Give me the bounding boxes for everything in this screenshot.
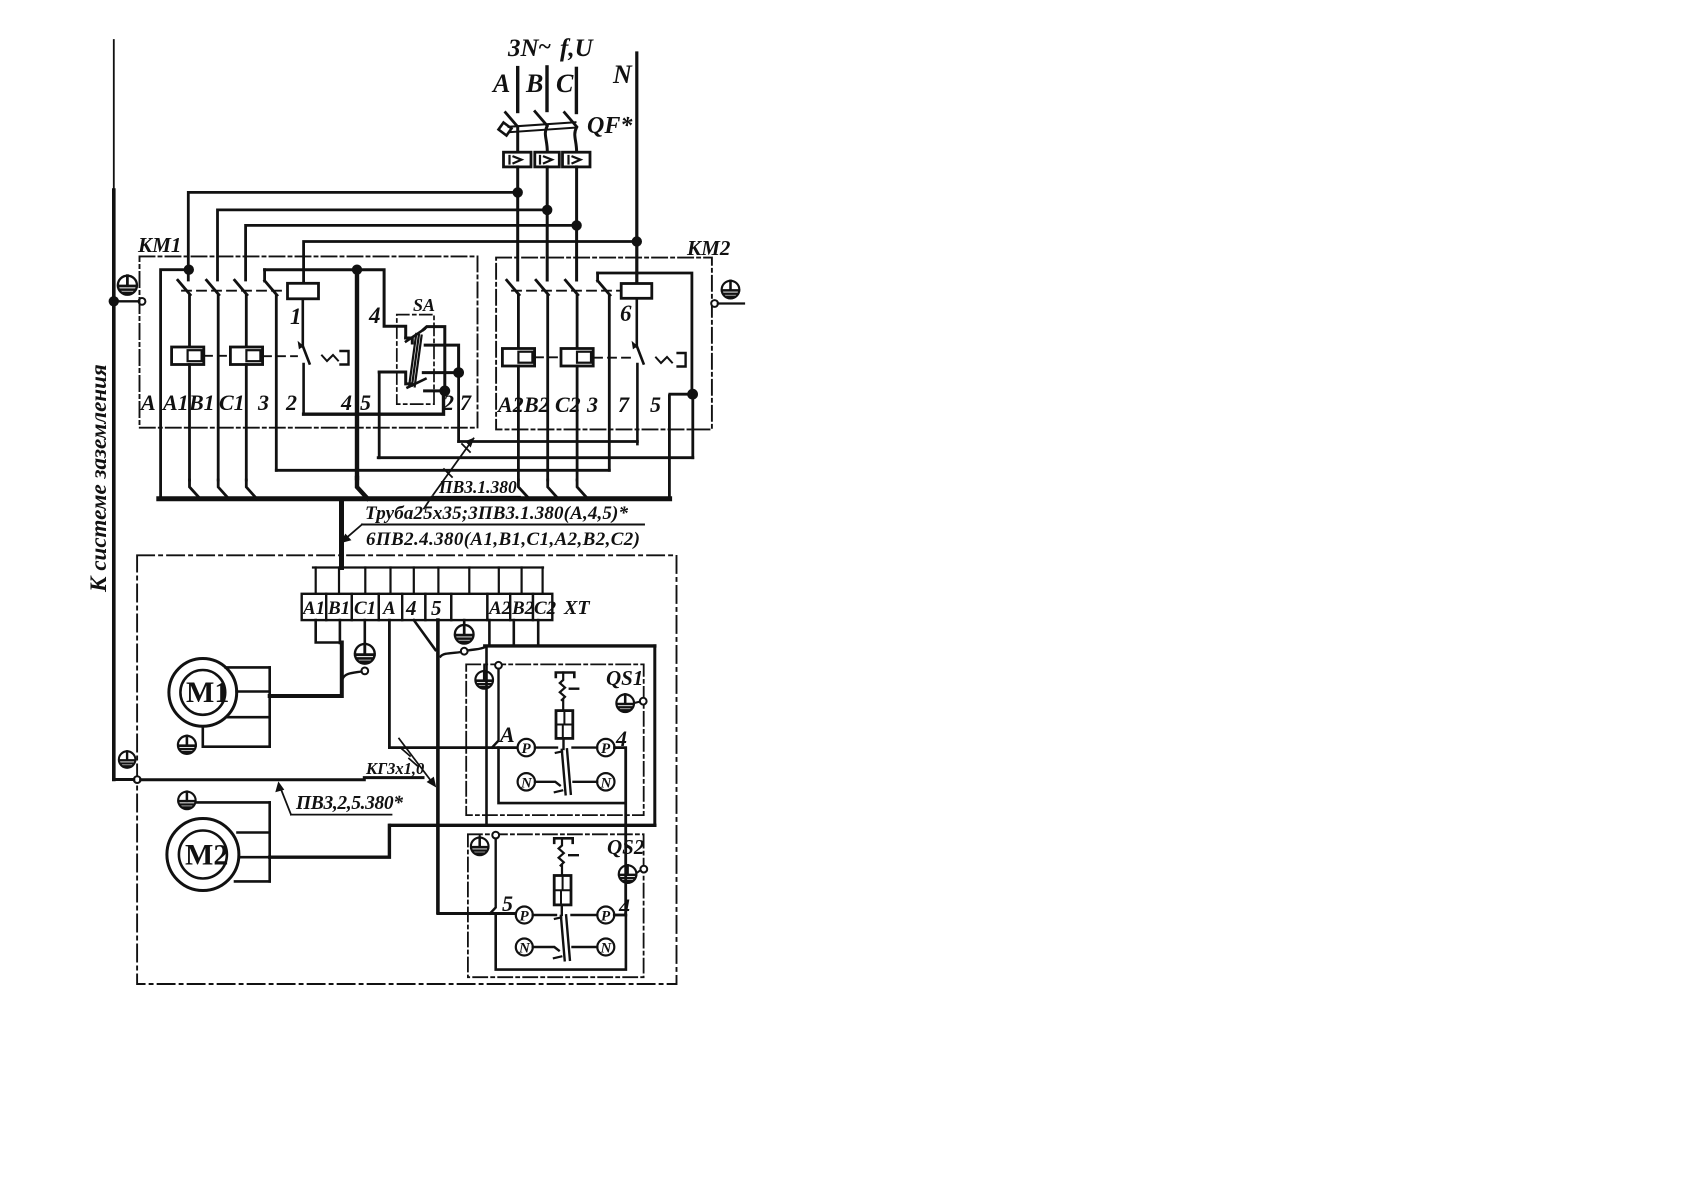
wire heater A2 to terminal [517,366,520,480]
wire pole A to release [516,128,519,153]
svg-text:QS2: QS2 [607,835,645,859]
thermal relay heater KK1-A [172,347,204,365]
svg-text:Труба25х35;3ПВ3.1.380(А,4,5)*: Труба25х35;3ПВ3.1.380(А,4,5)* [365,503,629,524]
wire blade to N right QS1 [574,781,598,783]
M2 earth wire [196,801,270,804]
riser bend to enclosure circle [114,778,134,781]
KM2 main contact pole C2 [565,280,577,348]
svg-text:С2: С2 [555,392,581,417]
fuse holder QS1 line stub [556,673,575,678]
cable note fraction bar [362,524,644,526]
earth symbol PE at XT [455,625,474,644]
KM1 terminal labels [139,390,472,415]
wire A entry to contact [492,669,499,748]
wire earth circle to M1 cable [343,672,362,680]
fuse holder QS2 line stub [554,838,573,843]
svg-text:А2: А2 [488,598,512,619]
thermal relay heater KK1-C [230,347,262,365]
svg-text:3: 3 [586,392,598,417]
wire phase A release to KM2 pole A2 [516,167,519,280]
M2 feeder cable bottom run [390,824,655,827]
wire pole C to release [575,128,577,153]
wire XT B2 down [512,620,515,646]
M1 phase stub middle [237,690,270,693]
cable callout PV3.1.380 leader [424,439,474,509]
terminal circle QS2 right [640,866,647,873]
switch SA blade bottom contact [408,379,426,388]
junction phase B [542,205,552,215]
trunk cable XT to QS area [436,620,440,912]
switch SA enclosure box [397,315,434,405]
junction net 4 [352,265,362,275]
chamfer net4 to bus [357,478,368,499]
M1 terminal bundle [268,667,271,746]
svg-text:f,U: f,U [560,35,595,62]
svg-text:М2: М2 [185,839,228,872]
svg-text:ПВ3,2,5.380*: ПВ3,2,5.380* [295,793,403,814]
earth symbol QS1 right [616,694,634,712]
svg-text:4: 4 [405,596,417,620]
svg-text:А: А [382,598,396,619]
KM1 main contact pole B1 [207,280,219,480]
wire node 7 to terminal row [457,373,460,442]
svg-text:6ПВ2.4.380(А1,В1,С1,А2,В2,С2): 6ПВ2.4.380(А1,В1,С1,А2,В2,С2) [366,529,640,550]
wire XT PE down [463,620,466,624]
breaker QF* pole A contact [506,113,518,127]
wire pole B to release [545,127,547,153]
svg-text:N: N [520,775,533,791]
svg-text:ХТ: ХТ [563,597,590,619]
svg-text:1: 1 [290,304,302,329]
svg-text:В2: В2 [511,598,535,619]
svg-text:B: B [525,69,543,98]
KM2 main contact pole B2 [536,280,548,480]
wire fuse to blade QS2 [561,905,563,915]
svg-text:N: N [518,940,531,956]
KM1 contact linkage dashes [182,290,287,292]
switch QS1 casing left edge [485,646,488,825]
contact P right QS1 [597,739,614,756]
svg-text:А1: А1 [302,598,325,619]
junction phase A [513,187,523,197]
wire XT C2 down [537,620,540,646]
contact N right QS2 [597,939,614,956]
wire link net 7 [459,440,638,443]
cable note leader arrow [344,525,362,541]
junction node 5 KM2 [687,389,698,400]
svg-text:С2: С2 [534,598,557,619]
coil KM1 (1) [288,283,319,299]
thermal NC contact spring and stop [322,355,338,361]
overcurrent release I> phase B [535,152,560,167]
contactor KM2 enclosure box [496,258,712,430]
terminal circle QS1 right [640,698,647,705]
svg-text:КМ2: КМ2 [686,236,731,260]
phase C incoming line [575,68,578,112]
svg-text:К системе заземления: К системе заземления [86,364,111,593]
thermal relay heater KK2-C [561,349,593,367]
thermal NC contact KM1 [303,346,310,414]
svg-text:5: 5 [360,390,371,415]
wire XT A1 to M1 cable [316,620,342,642]
wire link net 5 [378,456,693,459]
svg-text:N: N [612,60,633,89]
svg-text:М1: М1 [186,676,229,709]
phase A incoming line [516,68,519,112]
wire riser to KM1 enclosure [114,300,139,302]
svg-text:7: 7 [618,392,630,417]
knife blade QS1 [562,749,571,794]
switch SA top hook wire to node 2 [424,327,445,391]
breaker QF* linkage bar [509,122,577,132]
overcurrent release I> phase C [563,152,591,167]
svg-text:2: 2 [285,390,297,415]
XT stubs above [316,568,543,594]
M1 phase stub bottom [228,716,270,719]
terminal circle A entry QS1 [495,662,502,669]
earth symbol M2 frame [178,792,195,809]
svg-text:5: 5 [431,596,442,620]
overcurrent release I> phase A [504,152,532,167]
junction net A at pole A1 [184,265,194,275]
fuse QS1 [556,711,573,739]
contact N left QS1 [518,773,535,790]
svg-text:6: 6 [620,301,632,326]
wire link net 3 [276,469,609,472]
thermal relay heater KK2-A [502,349,534,367]
junction on riser [109,296,119,306]
M2 feeder cable top run [485,644,655,647]
svg-text:Р: Р [520,908,530,924]
svg-text:В1: В1 [327,598,350,619]
wire phase C branch to KM1 pole C1 [246,225,577,280]
svg-text:4: 4 [615,726,627,751]
wire net A to P contact QS1 [389,746,517,749]
supply label 3N~ f,U [491,34,633,139]
switch SA lower contact wire node 2 [425,389,445,392]
wire P left to blade QS1 [535,746,557,748]
KM2 terminal labels [496,392,661,417]
chamfer B2 to bus [548,480,558,499]
svg-text:Р: Р [522,741,532,757]
chamfer A1 to bus [190,480,201,499]
earth symbol at KM1 [118,276,137,295]
svg-text:А2: А2 [496,392,524,417]
wire terminal 4 riser [355,270,359,478]
M2 phase stub middle [239,856,270,859]
motor M1 [169,659,237,727]
KM2 heater linkage dashes [535,356,631,358]
M2 phase stub bottom [235,880,270,883]
wire KM2 enclosure to earth [718,302,744,304]
svg-text:QF*: QF* [587,113,633,139]
wire node 5 down [691,394,694,458]
svg-text:ПВ3.1.380: ПВ3.1.380 [438,477,517,497]
svg-text:QS1: QS1 [606,666,643,690]
switch SA lower contact wire node 7 [423,371,458,374]
wire XT 4 to trunk [414,620,436,650]
junction neutral [632,236,642,246]
wire blade to N right QS2 [573,946,598,948]
contact N left QS2 [516,939,533,956]
KM1 aux contact pole 4 [265,270,277,471]
terminal circle machine enclosure [134,776,141,783]
wire KM2 aux to node 5 [598,273,692,394]
M2 feeder cable right run [653,646,656,825]
wire phase B branch to KM1 pole B1 [218,210,548,280]
contactor KM1 enclosure box [140,256,478,427]
wire phase A branch to KM1 pole A1 [188,192,517,280]
motor M2 [167,819,239,891]
breaker QF* pole C contact [565,113,577,127]
earth symbol QS2 right [619,865,637,883]
M2 circuit wires PV3 [141,778,423,780]
M1 feeder cable [270,643,342,697]
contact P left QS2 [516,907,533,924]
M2 phase stub top [238,831,270,834]
neutral N line [635,53,638,284]
wire net 4 QS1 to QS2 [615,748,626,915]
wire net 4 from aux pole to SA [265,270,406,338]
wire net 5 to P contact QS2 [438,912,516,915]
svg-text:А: А [498,722,515,747]
contact P right QS2 [597,907,614,924]
svg-text:С1: С1 [354,598,376,619]
wire blade to P right QS1 [573,746,598,748]
svg-text:SA: SA [413,295,435,315]
svg-text:КМ1: КМ1 [137,233,181,257]
KM2 contact linkage dashes [512,290,621,292]
switch base QS2 [496,914,626,969]
wire 5 entry to contact [490,839,496,914]
wire phase C release to KM2 pole C2 [575,167,578,280]
junction node 7 at SA [453,367,464,378]
cable bus below contactors [159,496,670,501]
switch SA blade top contact [406,329,424,341]
wire P right QS2 to net 4 [614,914,625,917]
KM1 main contact pole A1 [178,280,190,347]
svg-text:4: 4 [340,390,352,415]
svg-text:7: 7 [460,390,472,415]
wire fuse to blade QS1 [562,738,564,749]
wire PE circle to QS1 casing [468,647,487,651]
chamfer A2 to bus [518,480,529,499]
switch QS1 compartment box [466,664,644,815]
breaker QF* pole B contact [535,112,547,126]
breaker QF* latch parallelogram [499,123,512,136]
thermal NC contact KM2 [637,346,644,444]
M2 terminal bundle [268,802,271,881]
M2 feeder cable jog [270,825,390,857]
KM2 aux contact pole [598,273,610,470]
heater linkage dashes [204,355,297,357]
earth symbol QS1 left [475,671,493,689]
chamfer B1 to bus [218,480,228,499]
grounding system riser [113,40,115,190]
knife blade QS2 [561,915,570,960]
thermal NC contact KM2 spring and stop [656,357,672,363]
machine enclosure box [137,555,676,984]
trunk cable to terminal block [339,501,344,568]
wire coil1 to thermal contact [301,299,304,347]
svg-text:3N: 3N [507,35,540,62]
terminal circle KM2 enclosure [711,300,718,307]
svg-text:А: А [139,390,156,415]
wire XT A down [388,620,391,748]
wire XT A2 down [488,620,491,646]
svg-text:С1: С1 [219,390,245,415]
svg-text:N: N [600,775,613,791]
M1 phase stub top [226,666,270,669]
wire terminal A from net A [161,270,189,499]
wire phase B release to KM2 pole B2 [546,167,549,280]
M1 earth stub [203,726,270,746]
wire PE circle to trunk [441,652,461,657]
wire coil6 to thermal contact [635,298,638,346]
XT cell labels [302,596,557,620]
terminal circle M1 circuit [361,668,368,675]
terminal circle KM1 enclosure [139,298,146,305]
coil KM2 (6) [621,284,652,299]
svg-text:N: N [600,940,613,956]
terminal circle PE at XT [461,648,468,655]
junction phase C [571,220,581,230]
terminal block XT cells [302,594,553,620]
switch QS2 compartment box [468,834,644,977]
svg-text:4: 4 [618,894,630,919]
chamfer C2 to bus [577,480,587,499]
switch base QS1 [499,748,626,804]
svg-text:A: A [491,69,510,98]
fuse QS2 [554,876,571,905]
switch SA blade [409,334,421,386]
svg-text:5: 5 [502,891,513,916]
earth symbol machine enclosure [119,751,136,768]
junction node 2 at SA [439,386,450,397]
earth symbol M1 circuit [355,644,375,664]
wire XT B1 down [339,620,342,643]
phase B incoming line [545,67,548,111]
svg-text:5: 5 [650,392,661,417]
wire heater C2 to terminal [576,366,579,480]
wire neutral branch to coil KM1 [304,242,637,284]
earth symbol QS2 left [471,838,489,856]
chamfer C1 to bus [246,480,256,499]
KM1 main contact pole C1 [235,280,247,347]
wire terminal 5 KM1 [378,372,381,458]
svg-text:В2: В2 [523,392,550,417]
wire XT C1 to earth terminal [363,620,366,643]
svg-text:4: 4 [368,303,381,328]
earth symbol at KM2 [722,281,740,299]
wire P left to blade QS2 [533,914,556,916]
contact P left QS1 [518,739,535,756]
wire node 5 branch to terminal [668,394,692,498]
cable label KG3x1.0 leader [399,739,433,784]
switch SA upper jaw [406,338,413,343]
contact N right QS1 [597,773,614,790]
earth symbol M1 frame [178,736,196,754]
wire net 2 link [304,391,444,414]
svg-text:В1: В1 [188,390,215,415]
KM2 main contact pole A2 [507,280,519,348]
switch SA wire to node 7 [425,345,458,373]
terminal block XT rail [313,566,543,568]
wire N left to blade QS2 [533,947,559,951]
svg-text:~: ~ [538,34,551,59]
wire blade to P right QS2 [572,914,598,916]
switch SA lower jaw [379,372,412,384]
svg-text:3: 3 [257,390,269,415]
wire heater C1 to terminal [245,365,248,481]
svg-text:Р: Р [601,741,611,757]
wire N left to blade QS1 [535,782,560,786]
wire heater A1 to terminal [188,365,191,481]
svg-text:Р: Р [601,908,611,924]
svg-text:КГ3х1,0: КГ3х1,0 [365,759,424,778]
terminal circle 5 entry QS2 [492,832,499,839]
svg-text:А1: А1 [161,390,189,415]
svg-text:C: C [556,69,574,98]
